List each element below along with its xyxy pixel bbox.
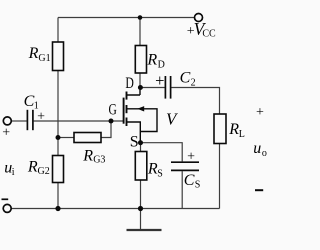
svg-text:C: C: [180, 69, 191, 86]
svg-text:+: +: [256, 105, 264, 120]
resistor RG1: [53, 42, 64, 71]
svg-text:R: R: [27, 158, 38, 175]
svg-text:G2: G2: [38, 166, 50, 177]
svg-text:+: +: [155, 71, 164, 90]
terminal input bottom: [3, 204, 11, 212]
svg-text:R: R: [228, 121, 239, 138]
wire source node to RS top: [140, 143, 142, 152]
node rail ground: [138, 206, 143, 211]
wire RD bottom to drain node: [139, 73, 141, 88]
wire rail to RD top: [139, 18, 141, 46]
transistor body lead with loop to source: [127, 109, 157, 132]
transistor source lead: [127, 122, 140, 143]
svg-text:S: S: [157, 168, 163, 179]
capacitor C1: [27, 110, 33, 130]
svg-text:S: S: [195, 180, 201, 191]
wire input terminal to C1: [12, 120, 27, 122]
wire RS bottom to rail: [140, 180, 142, 209]
svg-text:2: 2: [191, 77, 196, 88]
node dot top rail: [138, 15, 143, 20]
transistor body arrow: [137, 106, 144, 111]
svg-text:R: R: [147, 160, 158, 177]
svg-text:L: L: [239, 129, 245, 140]
resistor RG3: [74, 133, 101, 143]
svg-text:o: o: [262, 148, 267, 159]
node rail RG2: [55, 206, 60, 211]
node G: [109, 119, 114, 124]
resistor RD: [135, 46, 146, 74]
transistor channel segment bottom: [126, 118, 128, 127]
wire rail to ground: [140, 209, 142, 230]
wire RG2 bottom to bottom rail: [57, 183, 59, 209]
svg-text:G: G: [109, 102, 118, 119]
svg-text:+: +: [2, 126, 10, 141]
wire RL bottom to bottom rail: [219, 144, 221, 209]
svg-text:+: +: [187, 149, 195, 164]
wire CS bottom to rail: [181, 171, 183, 208]
wire drain node to C2: [141, 87, 165, 89]
wire top rail: [58, 17, 194, 19]
svg-text:G1: G1: [38, 53, 50, 64]
terminal input top: [3, 117, 11, 125]
wire left drop from rail to RG1: [57, 18, 59, 43]
label minus input: [2, 198, 9, 200]
ground: [127, 229, 162, 231]
svg-text:CC: CC: [202, 29, 216, 40]
svg-text:G3: G3: [93, 154, 105, 165]
svg-text:+: +: [37, 110, 45, 125]
label minus output: [255, 189, 263, 191]
resistor RL: [214, 114, 226, 144]
node S: [138, 140, 143, 145]
transistor drain lead: [127, 88, 140, 96]
node A (RG1/RG2/RG3): [56, 135, 61, 140]
svg-text:D: D: [125, 75, 133, 92]
resistor RG2: [53, 156, 64, 183]
transistor channel segment top: [126, 92, 128, 100]
wire node A to RG2 top: [57, 138, 59, 156]
wire C1 to gate: [34, 120, 123, 122]
svg-text:S: S: [130, 134, 139, 151]
wire node A to RG3 left: [58, 137, 74, 139]
transistor V (N-channel MOSFET) gate bar: [123, 98, 125, 124]
capacitor CS: [171, 162, 199, 170]
svg-text:i: i: [12, 167, 15, 178]
capacitor C2: [165, 76, 170, 99]
transistor channel segment middle: [126, 105, 128, 113]
node D: [138, 85, 143, 90]
wire RG3 right lead up to gate node: [101, 121, 111, 138]
wire RG1 bottom to node A: [57, 71, 59, 138]
terminal VCC: [195, 14, 203, 22]
resistor RS: [135, 152, 147, 181]
wire source node to CS top: [141, 143, 183, 162]
svg-text:u: u: [253, 140, 261, 157]
svg-text:R: R: [28, 45, 39, 62]
wire bottom rail: [11, 208, 219, 210]
svg-text:R: R: [146, 52, 157, 69]
wire C2 to RL top: [171, 88, 219, 115]
svg-text:C: C: [184, 172, 195, 189]
svg-text:R: R: [82, 147, 93, 164]
svg-text:D: D: [158, 59, 165, 70]
